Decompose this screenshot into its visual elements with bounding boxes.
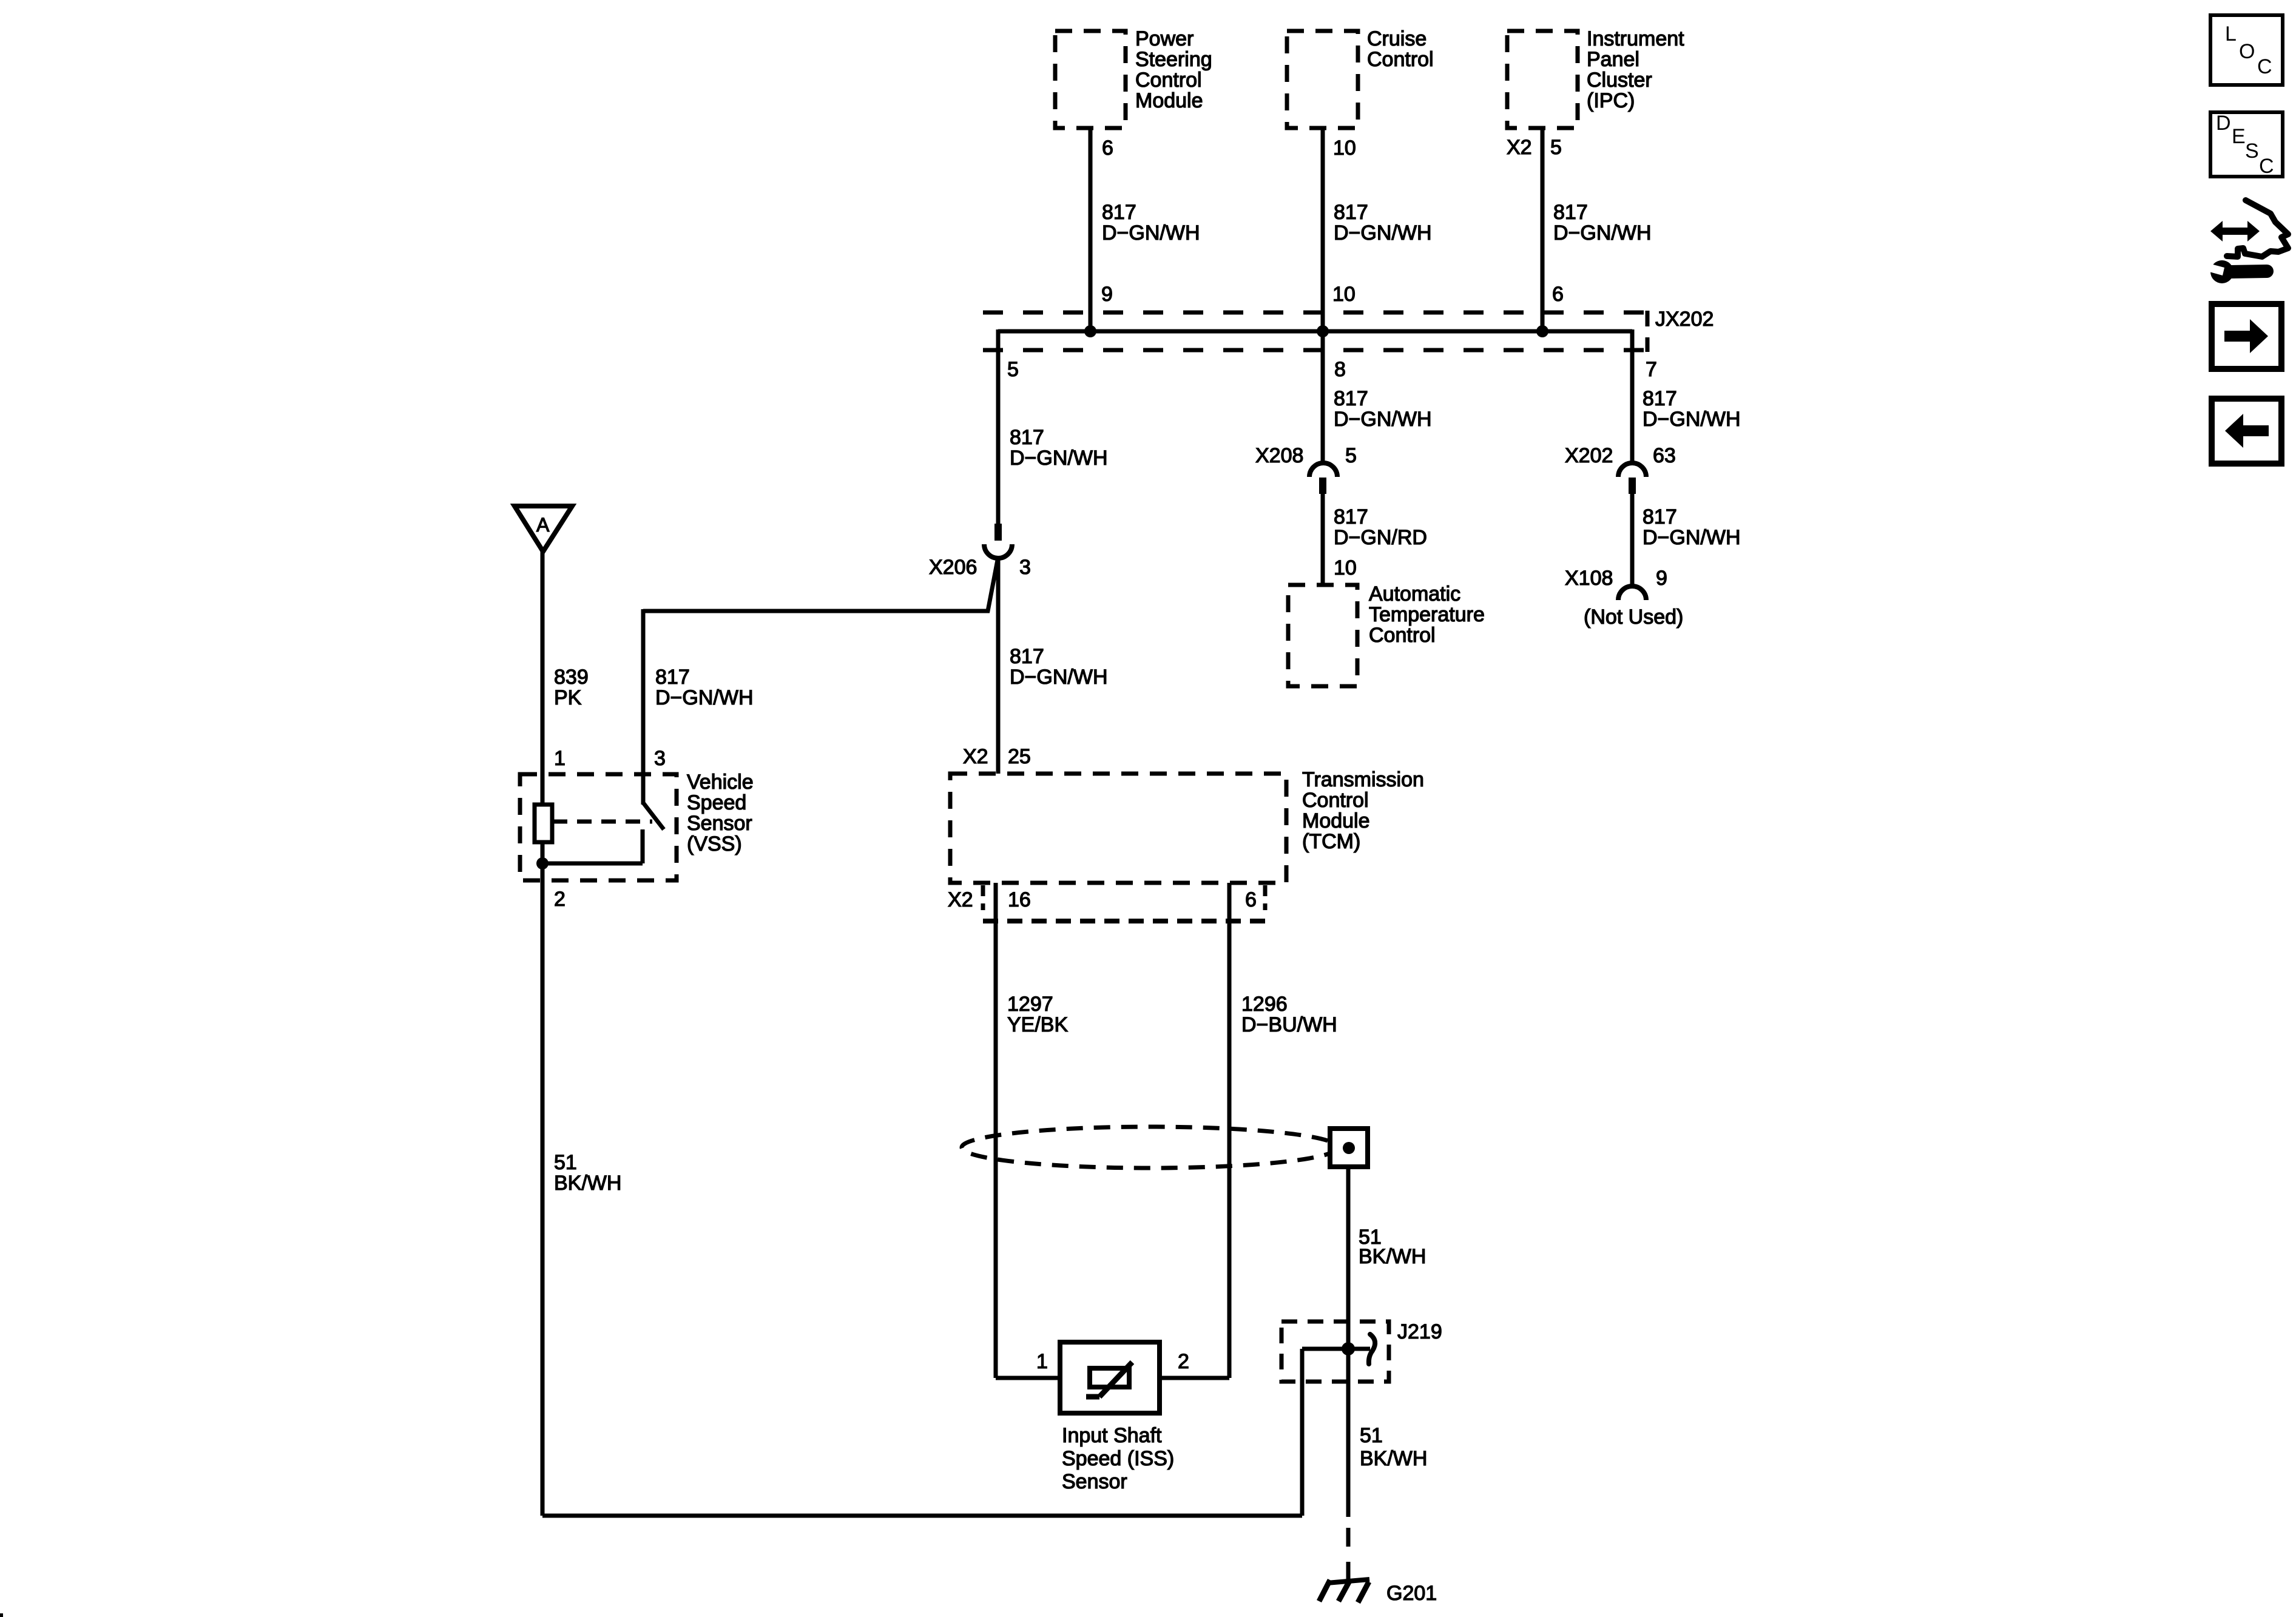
wire: resistor to junction — [541, 842, 545, 883]
wire: X206 down to TCM pin 25 — [996, 557, 1001, 774]
svg-text:Cluster: Cluster — [1587, 69, 1652, 92]
connector X206 male pin — [994, 524, 1002, 541]
wire label: 817 D-GN/WH (to X206) — [1010, 426, 1108, 470]
svg-text:1: 1 — [554, 747, 566, 770]
svg-text:BK/WH: BK/WH — [1360, 1447, 1427, 1470]
svg-text:817: 817 — [1102, 201, 1136, 224]
svg-text:D−GN/WH: D−GN/WH — [1102, 221, 1200, 245]
wire label: 817 D-GN/RD — [1334, 505, 1427, 549]
svg-text:D−GN/WH: D−GN/WH — [1334, 408, 1432, 431]
svg-text:Control: Control — [1369, 624, 1436, 647]
wire: JX202 pin 7 down to X202 — [1630, 329, 1635, 464]
svg-text:C: C — [2259, 155, 2274, 178]
svg-text:X2: X2 — [948, 888, 973, 911]
wire: IPC pin X2-5 down to JX202 pin 6 — [1541, 126, 1545, 331]
connector X108 female cup (not used) — [1618, 586, 1646, 600]
module box: Transmission Control Module (TCM) — [950, 774, 1286, 883]
wire: bottom run from VSS pin 2 to J219 — [542, 1514, 1302, 1518]
svg-text:817: 817 — [655, 666, 690, 689]
svg-text:X108: X108 — [1565, 567, 1613, 590]
svg-text:5: 5 — [1007, 358, 1019, 381]
junction dot at Cruise branch — [1317, 325, 1329, 337]
wire: switch lower contact down — [641, 829, 645, 863]
svg-text:51: 51 — [1360, 1424, 1383, 1447]
splice box with dot — [1330, 1129, 1368, 1167]
svg-text:817: 817 — [1553, 201, 1588, 224]
label: Instrument Panel Cluster (IPC) — [1587, 27, 1684, 112]
wire label: 817 D-GN/WH (IPC branch) — [1553, 201, 1652, 245]
svg-text:2: 2 — [554, 888, 566, 911]
svg-text:Module: Module — [1302, 809, 1370, 832]
wire label: 817 D-GN/WH (to X208) — [1334, 387, 1432, 431]
svg-text:Transmission: Transmission — [1302, 768, 1424, 791]
svg-text:839: 839 — [554, 666, 589, 689]
wire: JX202 internal bus — [998, 329, 1632, 334]
junction block JX202 dashed outline — [983, 311, 1647, 352]
svg-text:PK: PK — [554, 686, 582, 709]
connector X202 male pin — [1629, 478, 1636, 494]
dashed wire to ground — [1346, 1528, 1351, 1579]
svg-text:L: L — [2225, 22, 2237, 46]
svg-text:(IPC): (IPC) — [1587, 89, 1635, 112]
connector X208 female cup — [1309, 463, 1337, 477]
connector X206 female cup — [984, 544, 1012, 558]
svg-text:817: 817 — [1010, 426, 1044, 449]
connector X2 strip below TCM — [983, 885, 1265, 921]
svg-text:D−BU/WH: D−BU/WH — [1241, 1013, 1337, 1036]
svg-text:A: A — [536, 514, 550, 536]
connector X208 male pin — [1319, 478, 1326, 494]
wire label: 1297 YE/BK — [1007, 993, 1068, 1036]
svg-text:Vehicle: Vehicle — [687, 771, 754, 794]
icon box: arrow right — [2212, 304, 2281, 369]
wire: splice down to J219 junction — [1346, 1167, 1351, 1517]
label: Input Shaft Speed (ISS) Sensor — [1062, 1424, 1174, 1493]
svg-text:E: E — [2232, 125, 2246, 148]
svg-text:Instrument: Instrument — [1587, 27, 1684, 50]
wire label: 817 D-GN/WH (to VSS pin 3) — [655, 666, 754, 709]
svg-text:1297: 1297 — [1007, 993, 1053, 1016]
svg-text:1296: 1296 — [1241, 993, 1288, 1016]
svg-text:X2: X2 — [1507, 136, 1532, 159]
svg-text:Power: Power — [1135, 27, 1194, 50]
svg-text:Sensor: Sensor — [1062, 1470, 1127, 1493]
svg-text:9: 9 — [1101, 283, 1113, 306]
svg-text:Steering: Steering — [1135, 48, 1212, 71]
svg-text:Control: Control — [1302, 789, 1369, 812]
module box: Power Steering Control Module — [1055, 31, 1126, 128]
svg-text:3: 3 — [654, 747, 666, 770]
svg-text:1: 1 — [1036, 1350, 1048, 1373]
svg-text:D−GN/WH: D−GN/WH — [1643, 526, 1741, 549]
label: Automatic Temperature Control — [1369, 582, 1485, 647]
svg-text:817: 817 — [1334, 387, 1368, 410]
wire: PSCM pin 6 down to JX202 pin 9 — [1089, 126, 1093, 331]
pin X2 5 (IPC) — [1507, 136, 1562, 159]
svg-text:D: D — [2216, 112, 2231, 135]
svg-text:(Not Used): (Not Used) — [1584, 606, 1683, 629]
node A triangle — [515, 506, 572, 552]
svg-text:J219: J219 — [1397, 1320, 1442, 1343]
svg-text:6: 6 — [1552, 283, 1564, 306]
resistor inside VSS — [535, 805, 552, 842]
label: Power Steering Control Module — [1135, 27, 1212, 112]
wire label: 51 BK/WH (left) — [554, 1151, 621, 1195]
svg-text:X2: X2 — [963, 745, 988, 768]
component box: Input Shaft Speed (ISS) Sensor — [1060, 1342, 1160, 1413]
svg-text:YE/BK: YE/BK — [1007, 1013, 1068, 1036]
wire: Cruise pin 10 down to JX202 pin 10 — [1321, 126, 1325, 331]
wire: TCM pin 6 down to ISS pin 2 — [1160, 883, 1229, 1378]
wire label: 51 BK/WH (below J219) — [1360, 1424, 1427, 1470]
icon box: arrow left — [2212, 399, 2281, 464]
ground symbol G201 — [1319, 1579, 1369, 1602]
svg-text:Speed (ISS): Speed (ISS) — [1062, 1447, 1174, 1470]
svg-text:6: 6 — [1245, 888, 1257, 911]
wire: TCM pin 16 down to ISS pin 1 — [996, 883, 1060, 1378]
svg-text:Cruise: Cruise — [1367, 27, 1427, 50]
svg-text:X202: X202 — [1565, 444, 1613, 467]
wire label: 817 D-GN/WH (X202 to X108) — [1643, 505, 1741, 549]
svg-text:(VSS): (VSS) — [687, 832, 742, 856]
svg-text:25: 25 — [1008, 745, 1031, 768]
svg-text:D−GN/WH: D−GN/WH — [1010, 447, 1108, 470]
ISS sensor element box — [1090, 1368, 1129, 1387]
wire: J219 branch left and down — [1302, 1349, 1370, 1516]
svg-text:3: 3 — [1019, 556, 1031, 579]
wire: X202 down to X108 — [1630, 494, 1635, 586]
ISS sensor diagonal arrow — [1086, 1362, 1132, 1397]
wire: JX202 pin 5 down to X206 — [996, 329, 1001, 524]
wire: JX202 pin 8 down to X208 — [1321, 331, 1325, 464]
svg-text:BK/WH: BK/WH — [554, 1172, 621, 1195]
svg-text:X206: X206 — [929, 556, 977, 579]
junction dot at IPC branch — [1536, 325, 1548, 337]
svg-text:2: 2 — [1178, 1350, 1189, 1373]
svg-text:9: 9 — [1656, 567, 1667, 590]
svg-text:51: 51 — [554, 1151, 577, 1174]
icon box: LOC — [2210, 15, 2283, 85]
svg-text:O: O — [2239, 40, 2255, 63]
svg-text:817: 817 — [1334, 201, 1368, 224]
svg-text:Speed: Speed — [687, 791, 746, 814]
svg-text:JX202: JX202 — [1655, 308, 1714, 331]
icon box: DESC — [2210, 112, 2283, 178]
pin X2 25 (TCM) — [963, 745, 1031, 768]
svg-text:817: 817 — [1010, 645, 1044, 668]
svg-text:Module: Module — [1135, 89, 1203, 112]
svg-text:D−GN/WH: D−GN/WH — [1553, 221, 1652, 245]
svg-text:D−GN/WH: D−GN/WH — [1010, 666, 1108, 689]
svg-text:10: 10 — [1332, 283, 1356, 306]
junction dot (VSS internal) — [536, 857, 549, 869]
wire: X208 down to ATC pin 10 — [1321, 494, 1325, 585]
svg-text:X208: X208 — [1255, 444, 1303, 467]
page corner mark — [0, 1613, 3, 1617]
icon: hand with double arrow and wrench — [2205, 200, 2288, 283]
module box: Cruise Control — [1287, 31, 1358, 128]
svg-text:63: 63 — [1653, 444, 1676, 467]
svg-text:10: 10 — [1333, 137, 1356, 160]
junction dot at PSCM branch — [1084, 325, 1096, 337]
svg-text:Control: Control — [1135, 69, 1202, 92]
svg-text:Control: Control — [1367, 48, 1434, 71]
component box: Vehicle Speed Sensor (VSS) — [520, 774, 677, 880]
svg-text:8: 8 — [1334, 358, 1346, 381]
module box: Automatic Temperature Control — [1288, 585, 1357, 686]
svg-text:D−GN/WH: D−GN/WH — [1643, 408, 1741, 431]
wire label: 839 PK — [554, 666, 589, 709]
svg-text:Temperature: Temperature — [1369, 603, 1485, 626]
wire label: 51 BK/WH (above J219) — [1359, 1226, 1426, 1268]
svg-text:10: 10 — [1334, 556, 1357, 579]
svg-text:5: 5 — [1345, 444, 1357, 467]
label: Cruise Control — [1367, 27, 1434, 71]
svg-text:817: 817 — [1643, 505, 1677, 528]
svg-text:817: 817 — [1334, 505, 1368, 528]
wire: VSS pin 2 down left side — [541, 880, 545, 1516]
svg-text:C: C — [2257, 55, 2272, 78]
svg-text:7: 7 — [1646, 358, 1657, 381]
svg-text:S: S — [2245, 140, 2259, 163]
wire: X206 to VSS pin 3 (diagonal + horizontal + drop) — [643, 557, 998, 805]
label: Vehicle Speed Sensor (VSS) — [687, 771, 754, 856]
wire: triangle A down to VSS pin 1 — [541, 552, 545, 807]
wire: internal jumper to pin 2 wire — [542, 862, 643, 866]
svg-text:6: 6 — [1102, 137, 1113, 160]
wire label: 817 D-GN/WH (X206 to TCM) — [1010, 645, 1108, 689]
svg-text:(TCM): (TCM) — [1302, 830, 1360, 853]
connector X202 female cup — [1618, 463, 1646, 477]
splice J219 dashed box — [1281, 1322, 1389, 1382]
wire label: 817 D-GN/WH (PSCM branch) — [1102, 201, 1200, 245]
svg-text:D−GN/RD: D−GN/RD — [1334, 526, 1427, 549]
svg-text:D−GN/WH: D−GN/WH — [655, 686, 754, 709]
svg-text:16: 16 — [1008, 888, 1031, 911]
svg-text:Panel: Panel — [1587, 48, 1639, 71]
wire label: 817 D-GN/WH (to X202) — [1643, 387, 1741, 431]
svg-text:BK/WH: BK/WH — [1359, 1245, 1426, 1268]
svg-text:G201: G201 — [1386, 1582, 1437, 1605]
switch blade (VSS internal) — [643, 803, 664, 829]
svg-text:Sensor: Sensor — [687, 812, 752, 835]
svg-text:817: 817 — [1643, 387, 1677, 410]
svg-text:5: 5 — [1550, 136, 1562, 159]
dashed link: resistor to switch — [553, 820, 652, 824]
svg-text:Input Shaft: Input Shaft — [1062, 1424, 1162, 1447]
svg-text:Automatic: Automatic — [1369, 582, 1460, 606]
clip hook at J219 — [1369, 1334, 1375, 1364]
module box: Instrument Panel Cluster (IPC) — [1507, 31, 1578, 128]
svg-text:D−GN/WH: D−GN/WH — [1334, 221, 1432, 245]
wire label: 1296 D-BU/WH — [1241, 993, 1337, 1036]
wire label: 817 D-GN/WH (Cruise branch) — [1334, 201, 1432, 245]
junction dot J219 — [1342, 1342, 1355, 1355]
harness ellipse (dashed) — [962, 1127, 1338, 1168]
label: Transmission Control Module (TCM) — [1302, 768, 1424, 853]
